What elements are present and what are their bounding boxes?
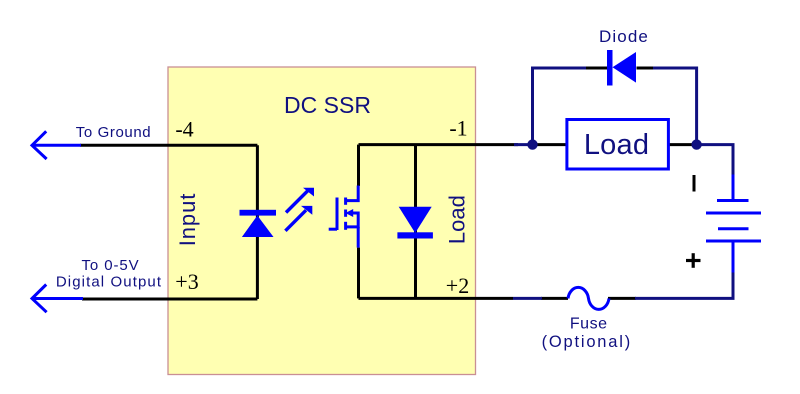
svg-text:-1: -1 bbox=[449, 116, 467, 141]
svg-text:+2: +2 bbox=[446, 273, 469, 298]
svg-text:Load: Load bbox=[445, 195, 470, 244]
svg-text:Fuse: Fuse bbox=[570, 316, 608, 333]
svg-text:Digital Output: Digital Output bbox=[56, 274, 162, 291]
svg-text:Load: Load bbox=[584, 129, 649, 161]
svg-text:To 0-5V: To 0-5V bbox=[82, 257, 140, 274]
svg-text:To Ground: To Ground bbox=[76, 124, 151, 141]
svg-text:+3: +3 bbox=[175, 269, 198, 294]
svg-text:-4: -4 bbox=[175, 117, 193, 142]
svg-text:Input: Input bbox=[175, 193, 200, 246]
svg-text:DC SSR: DC SSR bbox=[284, 92, 371, 118]
svg-text:(Optional): (Optional) bbox=[542, 333, 632, 351]
svg-text:Diode: Diode bbox=[599, 27, 649, 46]
